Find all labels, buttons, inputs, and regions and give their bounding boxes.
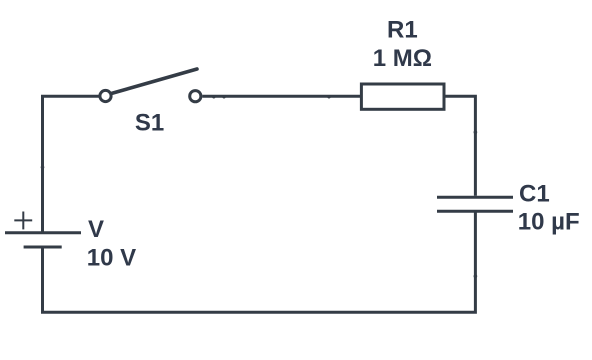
svg-text:S1: S1 [135, 109, 164, 136]
svg-text:1 MΩ: 1 MΩ [373, 45, 432, 72]
svg-text:10 V: 10 V [87, 245, 136, 272]
svg-text:V: V [88, 216, 104, 243]
svg-text:C1: C1 [519, 180, 550, 207]
svg-text:R1: R1 [387, 16, 418, 43]
svg-text:10 µF: 10 µF [518, 209, 580, 236]
